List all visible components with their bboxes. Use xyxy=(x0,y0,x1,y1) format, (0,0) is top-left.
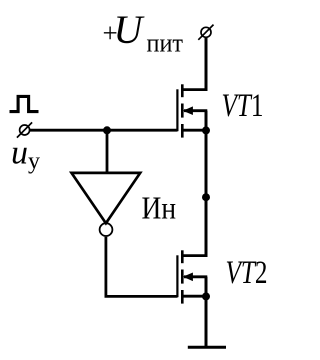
input terminal xyxy=(17,122,32,137)
wire: VT2 source to ground xyxy=(205,296,208,347)
label uУ xyxy=(11,135,40,175)
label +Uпит xyxy=(103,7,184,58)
wire: supply to VT1 drain xyxy=(205,38,208,92)
svg-text:пит: пит xyxy=(147,28,184,58)
inverter Ин xyxy=(72,173,141,236)
svg-text:Ин: Ин xyxy=(142,191,177,226)
transistor VT2 xyxy=(177,250,207,303)
svg-text:VT1: VT1 xyxy=(222,88,264,124)
transistor VT1 xyxy=(177,84,207,137)
ground xyxy=(188,346,226,349)
pulse symbol xyxy=(10,96,39,111)
svg-text:U: U xyxy=(114,7,146,52)
svg-text:у: у xyxy=(28,149,40,175)
junction dot: input node xyxy=(103,126,111,134)
junction dot: VT2 source xyxy=(202,292,210,300)
svg-text:u: u xyxy=(11,135,28,172)
wire: input to VT1 gate xyxy=(30,129,178,132)
svg-text:VT2: VT2 xyxy=(226,255,268,291)
junction dot: output node xyxy=(202,193,210,201)
rail: VT1 source to VT2 drain xyxy=(205,130,208,257)
wire: inverter output to VT2 gate xyxy=(106,237,178,297)
supply terminal xyxy=(198,25,213,40)
wire: node to inverter input xyxy=(106,130,109,174)
junction dot: VT1 source xyxy=(202,126,210,134)
